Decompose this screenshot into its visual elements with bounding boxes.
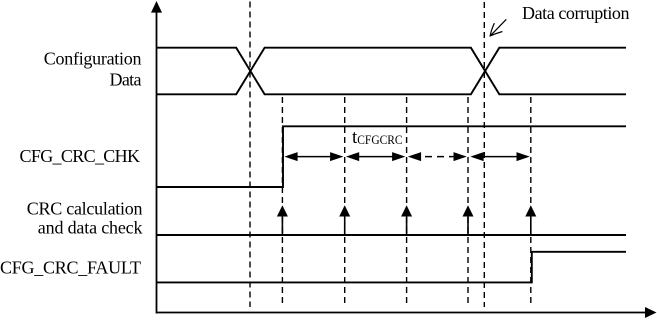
CRC calculation and data check baseline (157, 234, 626, 236)
CFG_CRC_CHK signal trace (low then high at x=282.5) (157, 126, 626, 187)
data corruption pointer arrow (490, 19, 506, 36)
horizontal time axis line (157, 312, 647, 314)
Configuration Data bus upper trace with two crossovers (157, 48, 626, 95)
tCFGCRC interval double arrow 2 (344.7 to 406.6) (346, 152, 406, 161)
Configuration Data bus lower trace with two crossovers (157, 48, 626, 95)
CRC check event up-arrow 1 (x=282.4) (277, 205, 288, 235)
svg-text:CRC calculation: CRC calculation (27, 199, 143, 219)
tCFGCRC interval double arrow 1 (282.5 to 344.7) (284, 152, 343, 161)
svg-text:Data corruption: Data corruption (522, 3, 630, 23)
dashed marker line at CFG_CRC_CHK rise (x=282.5) (281, 97, 283, 307)
svg-text:tCFGCRC: tCFGCRC (352, 127, 403, 148)
dashed marker line at third CRC check (x=406.6) (406, 97, 408, 307)
dashed marker line at second CRC check (x=344.7) (344, 97, 346, 307)
dashed marker line at fourth CRC check (x=468) (467, 97, 469, 307)
CRC check event up-arrow 3 (x=406.6) (401, 205, 412, 235)
CRC check event up-arrow 2 (x=344.7) (339, 205, 350, 235)
svg-text:Configuration: Configuration (44, 49, 142, 69)
CFG_CRC_FAULT signal trace (low then high at x=531) (157, 252, 626, 283)
CRC check event up-arrow 5 (x=530.8) (525, 205, 536, 235)
svg-text:and data check: and data check (38, 218, 143, 238)
svg-text:CFG_CRC_CHK: CFG_CRC_CHK (20, 146, 141, 166)
svg-text:Data: Data (110, 70, 142, 90)
tCFGCRC interval double arrow 3 dashed (406.6 to 468) (408, 152, 467, 161)
vertical time axis line (156, 12, 158, 314)
horizontal axis arrowhead (645, 307, 657, 318)
tCFGCRC interval double arrow 4 (469.5 to 530.8) (470, 152, 530, 161)
vertical axis arrowhead (151, 1, 162, 13)
CRC check event up-arrow 4 (x=468) (463, 205, 474, 235)
dashed marker line at first data-change (x=250) (249, 2, 251, 308)
svg-text:CFG_CRC_FAULT: CFG_CRC_FAULT (0, 258, 141, 278)
dashed marker line at fifth CRC check / CFG_CRC_FAULT rise (x=530.8) (530, 97, 532, 307)
dashed marker line at data corruption event (x=483.8) (483, 2, 485, 307)
